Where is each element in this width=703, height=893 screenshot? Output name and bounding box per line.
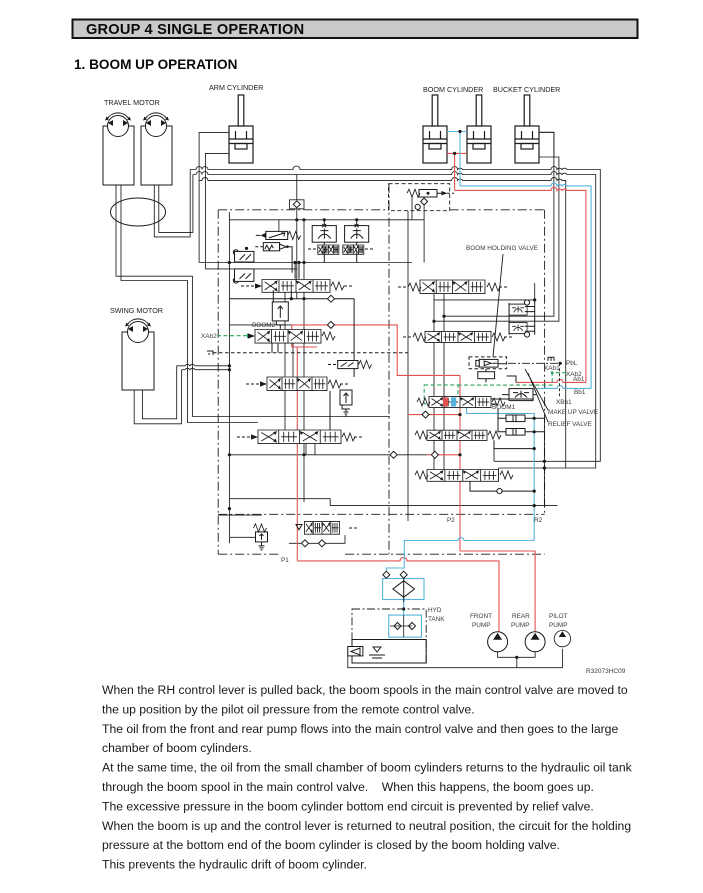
svg-text:the up position by the pilot o: the up position by the pilot oil pressur… xyxy=(102,702,475,716)
green arrow left xyxy=(247,333,254,338)
wire holding valve drop xyxy=(486,364,516,383)
arm2 springs xyxy=(408,283,421,291)
svg-text:XAb1: XAb1 xyxy=(544,365,560,372)
twin cluster spool2 xyxy=(343,245,364,254)
svg-text:The oil from the front and rea: The oil from the front and rear pump flo… xyxy=(102,722,618,736)
left column inter-spool verticals xyxy=(285,292,315,455)
left bus xyxy=(228,212,230,543)
line y268.9 xyxy=(205,268,296,270)
swing spool spring right xyxy=(331,282,344,290)
blue filter drop xyxy=(403,600,405,616)
svg-text:The excessive pressure in the: The excessive pressure in the boom cylin… xyxy=(102,799,594,813)
pilot line diamonds xyxy=(302,540,309,547)
solenoidA feed xyxy=(278,220,280,232)
port relief mid node xyxy=(524,332,529,337)
red boom2 top line xyxy=(292,325,460,376)
blue line to right xyxy=(460,183,591,389)
svg-text:TANK: TANK xyxy=(428,616,445,623)
svg-text:When the RH control lever is p: When the RH control lever is pulled back… xyxy=(102,683,628,697)
blue boom cyl rods xyxy=(447,132,467,186)
red boom1 bottom stub xyxy=(408,414,460,416)
travelRH springs xyxy=(415,431,428,439)
svg-text:MAKE UP VALVE: MAKE UP VALVE xyxy=(548,409,598,416)
pilot spool triangle xyxy=(296,525,302,530)
tank/pump black piping xyxy=(348,649,563,668)
svg-text:PUMP: PUMP xyxy=(549,622,567,629)
port symbol above PbL xyxy=(548,357,554,361)
svg-text:PbL: PbL xyxy=(566,360,578,367)
bucket spool xyxy=(425,331,491,342)
red line to right xyxy=(455,187,586,382)
twin cluster dashes xyxy=(308,248,373,250)
swing spool pilot dashes xyxy=(241,285,353,287)
swing motor xyxy=(122,332,154,390)
wire boom1 right xyxy=(491,399,534,404)
svg-text:BOOM HOLDING VALVE: BOOM HOLDING VALVE xyxy=(466,245,538,252)
svg-text:Bb1: Bb1 xyxy=(574,389,586,396)
svg-text:1. BOOM UP OPERATION: 1. BOOM UP OPERATION xyxy=(74,57,237,72)
right bus 534.7 xyxy=(434,283,535,300)
swing bottom link line xyxy=(229,263,354,361)
svg-text:Ab1: Ab1 xyxy=(573,376,585,383)
boom cylinder 2 xyxy=(467,95,491,163)
center bus 304 xyxy=(303,220,305,502)
reducing valve xyxy=(272,302,288,329)
svg-text:REAR: REAR xyxy=(512,613,530,620)
svg-text:GROUP 4 SINGLE OPERATION: GROUP 4 SINGLE OPERATION xyxy=(86,22,304,38)
tank suction box xyxy=(348,647,363,656)
wire travel motor1 right xyxy=(121,185,258,423)
MCV boundary bottom xyxy=(218,513,544,515)
header bar xyxy=(73,20,638,39)
boom2 spool xyxy=(255,330,321,344)
wire makeup link xyxy=(502,394,537,396)
drain dashed line xyxy=(213,352,408,354)
arm1 spring right xyxy=(328,380,341,388)
wire arm2 right xyxy=(484,284,486,286)
wire swing to block upper w/bumps xyxy=(177,364,230,365)
wire travel motor2 right xyxy=(159,175,193,233)
MCV boundary top left xyxy=(218,209,388,211)
center bus 408 xyxy=(407,211,409,521)
svg-text:XAb2: XAb2 xyxy=(201,333,217,340)
line y454.8 w/diamond xyxy=(229,454,427,456)
svg-text:P2: P2 xyxy=(447,517,455,524)
svg-text:At the same time, the oil from: At the same time, the oil from the small… xyxy=(102,761,633,775)
svg-text:HYD: HYD xyxy=(428,607,442,614)
wire travelRH right xyxy=(494,440,534,448)
relief valve pointer xyxy=(528,373,548,422)
relief pair box1 xyxy=(506,415,525,422)
red boom2 left leg xyxy=(292,325,317,561)
port relief mid xyxy=(509,323,527,334)
swing spool xyxy=(262,280,330,293)
svg-text:ARM CYLINDER: ARM CYLINDER xyxy=(209,83,263,92)
MCV bottom line3 xyxy=(345,553,545,555)
svg-text:through the boom spool in the: through the boom spool in the main contr… xyxy=(102,780,594,794)
tank check diamonds inside xyxy=(394,623,401,630)
XBb1 dashed vertical xyxy=(559,363,561,399)
blue boom1 U xyxy=(467,408,535,541)
travel motor 1 xyxy=(103,126,134,185)
MCV boundary top right xyxy=(450,209,545,211)
travel L spool xyxy=(258,430,341,444)
line y543.3 xyxy=(289,535,345,543)
filter xyxy=(393,578,415,603)
boom2 spring right xyxy=(322,332,335,340)
MCV boundary right vertical xyxy=(544,210,546,515)
arm1 pilot dashes xyxy=(246,383,350,385)
blue return R2 to filter xyxy=(386,538,534,579)
boom1 blue insert xyxy=(451,397,456,406)
svg-text:R2: R2 xyxy=(534,517,543,524)
svg-text:chamber of boom cylinders.: chamber of boom cylinders. xyxy=(102,741,252,755)
svg-text:This prevents the hydraulic dr: This prevents the hydraulic drift of boo… xyxy=(102,858,367,872)
wire arm cyl rod side xyxy=(199,132,229,262)
wire travel motor2 left xyxy=(154,170,190,237)
solenoid valve A xyxy=(256,231,301,239)
wire arm cyl bottom side xyxy=(205,153,229,269)
solenoid valve B xyxy=(255,243,292,273)
line y262.5 xyxy=(199,262,412,264)
bucket cyl link box xyxy=(539,132,554,157)
blue filter box xyxy=(383,579,424,600)
pilot relief valve bottom xyxy=(254,524,268,550)
wire swing to block lower w/bumps xyxy=(182,368,230,369)
arm1-travel link xyxy=(329,391,331,430)
twin pump relief cluster box1 xyxy=(312,224,336,243)
wire swing motor left xyxy=(134,370,181,424)
boom cylinder 1 xyxy=(423,95,447,163)
relief pair box2 mark xyxy=(513,429,516,436)
svg-text:XBb1: XBb1 xyxy=(556,399,572,406)
svg-text:PUMP: PUMP xyxy=(472,622,490,629)
pilot valve feed xyxy=(230,536,255,538)
svg-text:FRONT: FRONT xyxy=(470,613,492,620)
bucket cyl line2 xyxy=(434,157,559,321)
arm1 spool xyxy=(267,377,327,391)
green pilot right XAb2 xyxy=(424,371,566,404)
MCV bottom line2 xyxy=(218,553,278,555)
port P vertical xyxy=(296,175,298,220)
relief pair box1 mark xyxy=(513,415,516,422)
tank inner solid xyxy=(352,640,426,664)
bottom long line stepped xyxy=(229,499,557,506)
green pilot dashed left xyxy=(217,335,247,337)
svg-text:BUCKET CYLINDER: BUCKET CYLINDER xyxy=(493,85,560,94)
tank dash-dot box xyxy=(352,609,426,663)
tank inner check links xyxy=(390,615,412,637)
red Ab1 horizontal xyxy=(516,379,586,382)
drain symbol E xyxy=(207,351,213,355)
red P1 to front pump xyxy=(297,557,499,631)
svg-text:P1: P1 xyxy=(281,557,289,564)
wire option right xyxy=(470,481,534,491)
svg-text:pressure at the bottom end of: pressure at the bottom end of the boom c… xyxy=(102,838,560,852)
port relief upper node xyxy=(524,300,529,305)
svg-text:BOOM CYLINDER: BOOM CYLINDER xyxy=(423,85,483,94)
front pump xyxy=(488,632,508,652)
svg-text:RELIEF VALVE: RELIEF VALVE xyxy=(548,421,592,428)
bucket cylinder xyxy=(515,95,539,163)
arm2 spool xyxy=(420,280,485,294)
relief pair wires xyxy=(498,409,544,432)
twin cluster feeds xyxy=(324,220,356,263)
PbL dot xyxy=(559,362,562,365)
pilot spool dashes xyxy=(349,527,359,529)
block border top line1 xyxy=(190,166,600,461)
svg-text:BOOM1: BOOM1 xyxy=(492,404,516,411)
line y324.9 black part xyxy=(229,324,291,326)
red travel stub xyxy=(427,454,460,456)
arm cylinder xyxy=(229,95,253,163)
port relief upper xyxy=(509,304,527,315)
center joint ellipse xyxy=(111,198,166,226)
wire travel motor1 left xyxy=(116,185,390,417)
make up valve pointer xyxy=(525,369,548,410)
filter check diamonds xyxy=(383,571,390,578)
right ladder leg xyxy=(543,417,545,505)
port drop xyxy=(296,220,298,299)
boom2 left arrow xyxy=(248,333,255,338)
check valve pair lower xyxy=(233,269,254,283)
line option to border xyxy=(498,468,500,481)
travelL pilot dashes xyxy=(237,436,364,438)
junction dots xyxy=(458,130,461,133)
rear pump xyxy=(525,632,545,652)
tank fluid mark xyxy=(369,647,385,658)
bucket springs xyxy=(413,333,426,341)
boom1 red insert xyxy=(443,397,448,406)
option circle node xyxy=(497,489,502,494)
block inner top line3 xyxy=(199,177,566,468)
diamond on red 414.6 xyxy=(422,411,429,418)
line travel RH to border xyxy=(493,440,495,461)
boom2 pilot valve xyxy=(338,361,358,369)
port P box xyxy=(290,200,305,209)
svg-text:BOOM2: BOOM2 xyxy=(252,322,276,329)
blue tank box xyxy=(389,615,422,637)
svg-text:TRAVEL MOTOR: TRAVEL MOTOR xyxy=(104,98,160,107)
tank suction link xyxy=(347,650,349,652)
main relief valve (in dashed box) xyxy=(407,189,454,197)
boom1 spool xyxy=(429,396,491,407)
svg-text:When the boom is up and the co: When the boom is up and the control leve… xyxy=(102,819,631,833)
holding valve pointer xyxy=(493,254,503,357)
right column inter-spool verticals xyxy=(434,294,444,470)
diamond on red 454.8 xyxy=(431,451,438,458)
option spool xyxy=(427,470,499,482)
swing spool left arrow xyxy=(255,283,262,288)
option springs xyxy=(415,471,428,479)
block border top line2 xyxy=(193,172,596,469)
travelL spring right xyxy=(342,433,355,441)
blue Bb1 horizontal xyxy=(537,385,591,388)
svg-text:PUMP: PUMP xyxy=(511,622,529,629)
boom holding pilot box xyxy=(478,372,495,379)
arm2 dashes xyxy=(398,286,509,288)
relief drop 412 xyxy=(411,197,413,220)
reducing valve 2 xyxy=(340,390,352,416)
relief dashed box xyxy=(389,184,450,211)
svg-text:R32073HC09: R32073HC09 xyxy=(586,668,626,675)
MCV boundary left vertical xyxy=(217,210,219,554)
boom2 bottom stubs xyxy=(272,343,278,353)
arm1 left arrow xyxy=(260,381,267,386)
boom holding valve dashed box xyxy=(469,357,507,369)
check valve pair upper xyxy=(233,247,254,262)
twin pump relief cluster box2 xyxy=(345,224,369,243)
bucket cyl line1 xyxy=(444,132,554,316)
bucket dashes xyxy=(403,336,514,338)
diamond on red top xyxy=(327,321,334,328)
right column connect wires xyxy=(470,285,537,494)
wire swing motor right xyxy=(142,366,176,419)
line y515.1 short xyxy=(218,514,262,516)
relief pair box2 xyxy=(506,429,525,436)
red P2 riser xyxy=(460,375,535,631)
boom holding check xyxy=(476,359,498,367)
wire bucket right links xyxy=(509,300,535,335)
diamond on swing link xyxy=(328,295,335,302)
travel motor 2 xyxy=(141,126,172,185)
travel RH spool xyxy=(427,430,487,440)
travelL left arrow xyxy=(251,434,258,439)
relief nodes xyxy=(421,198,428,205)
PbL dashdot xyxy=(508,362,563,364)
svg-text:PILOT: PILOT xyxy=(549,613,568,620)
boom1 springs xyxy=(417,398,430,406)
make up valve symbol xyxy=(509,389,533,401)
pilot pump xyxy=(554,630,570,646)
line y219.8 xyxy=(229,219,424,221)
MCV boundary center vertical xyxy=(388,184,390,555)
red boom cyl bottoms xyxy=(447,153,467,190)
diamond on line 454.8 xyxy=(390,451,397,458)
svg-text:SWING MOTOR: SWING MOTOR xyxy=(110,306,163,315)
relief drop 424 xyxy=(423,204,425,263)
twin cluster spool1 xyxy=(318,245,339,254)
pilot spool valve xyxy=(305,521,340,534)
